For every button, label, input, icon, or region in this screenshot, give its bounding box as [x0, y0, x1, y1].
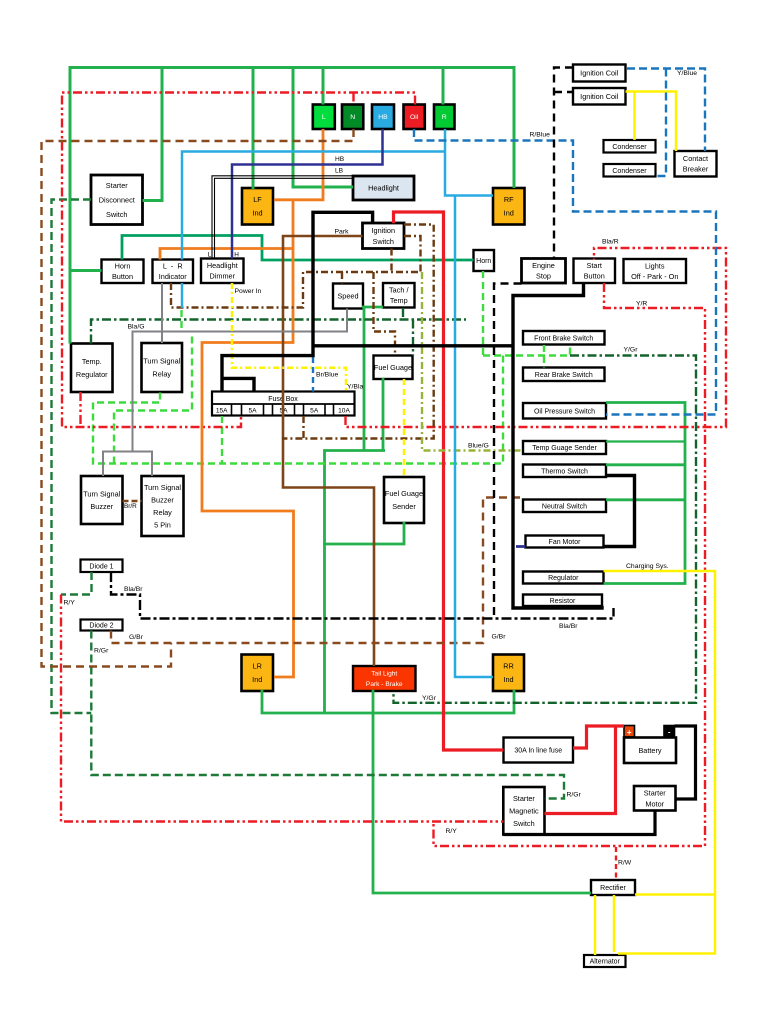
- starter magnetic switch: [503, 787, 544, 835]
- temp guage sender: [523, 441, 606, 454]
- svg-text:Relay: Relay: [152, 370, 171, 379]
- svg-text:Lights: Lights: [645, 261, 665, 270]
- svg-text:Sender: Sender: [392, 502, 416, 511]
- wire gray buzzer split: [103, 452, 152, 477]
- svg-text:Ind: Ind: [252, 675, 262, 684]
- wire red 30A fuse to battery plus: [573, 726, 624, 748]
- fuel guage: [374, 356, 413, 380]
- svg-text:Charging Sys.: Charging Sys.: [626, 563, 669, 570]
- svg-text:Breaker: Breaker: [683, 165, 709, 174]
- wire black bus to switch column: [313, 344, 513, 347]
- svg-text:Switch: Switch: [106, 210, 128, 219]
- svg-text:Diode 2: Diode 2: [89, 623, 113, 630]
- svg-text:Park - Brake: Park - Brake: [366, 681, 403, 688]
- svg-text:Neutral Switch: Neutral Switch: [542, 503, 587, 510]
- wire green drop to R indicator box: [442, 68, 445, 105]
- engine stop switch: [522, 259, 566, 284]
- svg-text:HB: HB: [335, 156, 345, 163]
- wire red dash-dot top rail and left fuse run: [62, 93, 415, 428]
- svg-text:Starter: Starter: [513, 794, 535, 803]
- svg-text:Oil: Oil: [410, 114, 419, 121]
- turn signal buzzer: [81, 476, 123, 524]
- svg-text:10A: 10A: [338, 408, 350, 415]
- wire brown dash-dot ignition wire B: [404, 236, 421, 272]
- svg-text:Fan Motor: Fan Motor: [549, 539, 582, 546]
- fuel guage sender: [384, 477, 424, 523]
- svg-text:Starter: Starter: [106, 181, 128, 190]
- svg-text:Y/R: Y/R: [636, 301, 647, 308]
- svg-text:Headlight: Headlight: [368, 184, 399, 193]
- svg-text:Ind: Ind: [503, 675, 513, 684]
- wire dark-green dash-dot Fuel Guage stub: [412, 320, 414, 356]
- wire navy LB rail: [232, 129, 383, 259]
- wire black dashed coil feed: [554, 68, 573, 259]
- wire brown dash-dot ignition wire A: [282, 225, 434, 439]
- svg-text:R/Gr: R/Gr: [94, 648, 109, 655]
- svg-text:LB: LB: [335, 168, 344, 175]
- svg-text:Battery: Battery: [638, 746, 661, 755]
- wire red dash-dot Temp Regulator stub: [79, 392, 81, 427]
- wire black dashed Engine Stop run: [494, 284, 522, 619]
- temp regulator: [71, 344, 113, 393]
- svg-text:Power In: Power In: [235, 288, 262, 295]
- svg-text:Y/Gr: Y/Gr: [624, 347, 639, 354]
- indicator lamp L: [313, 105, 335, 130]
- wire green Fuel Guage Sender branch: [323, 522, 404, 544]
- headlight: [353, 176, 414, 200]
- svg-text:Br/Blue: Br/Blue: [316, 372, 339, 379]
- svg-text:Stop: Stop: [536, 272, 551, 281]
- wire gray from L-R Indicator to Turn Signal Relay: [161, 283, 163, 343]
- svg-text:Button: Button: [584, 272, 605, 281]
- svg-text:Headlight: Headlight: [207, 261, 238, 270]
- svg-text:5A: 5A: [248, 408, 257, 415]
- svg-text:Temp Guage Sender: Temp Guage Sender: [532, 445, 597, 452]
- wire green switch bus right side: [604, 403, 686, 584]
- wire yellow dash-dot Power In: [232, 283, 346, 392]
- svg-text:Bla/G: Bla/G: [128, 324, 145, 331]
- svg-text:R/Gr: R/Gr: [567, 792, 582, 799]
- ignition coil 2: [573, 88, 626, 105]
- front brake switch: [523, 331, 605, 345]
- LR Ind lamp: [242, 655, 274, 692]
- wire red main feed from Ignition Switch: [394, 212, 504, 750]
- svg-text:Alternator: Alternator: [590, 959, 621, 966]
- svg-text:Bla/R: Bla/R: [602, 239, 619, 246]
- RF Ind lamp: [493, 188, 525, 225]
- wire light-green dashed bus run: [93, 356, 503, 464]
- svg-text:Ignition Coil: Ignition Coil: [580, 92, 619, 101]
- svg-text:Fuel Guage: Fuel Guage: [374, 363, 412, 372]
- thermo switch: [523, 465, 606, 478]
- wire black Thermo to Fan Motor bus: [604, 476, 635, 547]
- wire yellow condenser stub: [633, 92, 636, 141]
- svg-text:R/Y: R/Y: [64, 600, 76, 607]
- alternator: [584, 955, 626, 967]
- svg-text:Blue/G: Blue/G: [468, 443, 489, 450]
- wire gray header from Speed: [133, 309, 348, 452]
- wire green drop to LF Ind: [252, 68, 255, 190]
- wire blue dashed Y/Blue: [627, 69, 705, 152]
- diode 2: [81, 620, 123, 631]
- start button: [574, 259, 616, 284]
- wire light-green dashed second riser: [114, 332, 192, 464]
- svg-text:Rear Brake Switch: Rear Brake Switch: [535, 372, 593, 379]
- RR Ind lamp: [493, 655, 524, 692]
- wire brown dash-dot accessory header: [171, 272, 421, 308]
- svg-text:Buzzer: Buzzer: [90, 502, 113, 511]
- wire thin black headlight L wire inner: [215, 178, 354, 258]
- wire dark-green dashed R/Gr run: [91, 631, 564, 799]
- wire light-green dashed brake header: [483, 344, 570, 356]
- svg-text:R: R: [442, 114, 447, 121]
- svg-text:RR: RR: [503, 662, 514, 671]
- svg-text:Magnetic: Magnetic: [509, 806, 539, 815]
- svg-text:Button: Button: [112, 272, 133, 281]
- starter disconnect switch: [91, 175, 143, 225]
- svg-text:Bla/Br: Bla/Br: [124, 586, 143, 593]
- wire black battery minus to starter motor: [675, 726, 696, 799]
- svg-text:Turn Signal: Turn Signal: [83, 489, 120, 498]
- svg-text:Switch: Switch: [513, 819, 535, 828]
- indicator lamp N: [342, 105, 363, 130]
- rectifier: [591, 880, 635, 895]
- wire navy Fan Motor stub: [516, 545, 526, 548]
- svg-text:Buzzer: Buzzer: [151, 495, 174, 504]
- wire green from Fuel Guage bottom: [382, 378, 385, 451]
- wire blue dashed Br/Blue fuse stub: [312, 357, 314, 392]
- battery minus terminal: [664, 726, 675, 738]
- wire brown dashed G/Br run: [111, 498, 523, 644]
- wire green drop to Starter Disconnect Switch: [143, 68, 163, 201]
- wire green Neutral Switch link: [606, 498, 685, 501]
- svg-text:LF: LF: [253, 195, 262, 204]
- indicator lamp HB: [372, 105, 394, 130]
- svg-text:L - R: L - R: [163, 262, 183, 271]
- battery plus terminal: [624, 726, 635, 738]
- regulator: [523, 572, 604, 584]
- diode 1: [81, 560, 123, 573]
- svg-text:30A In line fuse: 30A In line fuse: [514, 748, 562, 755]
- svg-text:Switch: Switch: [373, 237, 395, 246]
- wire light-green dashed Horn drop: [482, 271, 484, 356]
- wire dark-green dash-dot Tach stub: [402, 308, 404, 320]
- svg-text:Contact: Contact: [683, 154, 708, 163]
- svg-text:Diode 1: Diode 1: [89, 563, 113, 570]
- svg-text:Turn Signal: Turn Signal: [144, 483, 181, 492]
- svg-text:Fuel Guage: Fuel Guage: [385, 489, 423, 498]
- contact breaker: [675, 151, 717, 177]
- wire yellow rectifier to alternator left: [594, 895, 597, 955]
- svg-text:Relay: Relay: [153, 508, 172, 517]
- wire red dash-dot Y/R run: [434, 283, 706, 846]
- ignition switch: [363, 223, 405, 249]
- svg-text:HB: HB: [378, 114, 388, 121]
- rear brake switch: [523, 368, 605, 382]
- svg-text:Regulator: Regulator: [76, 370, 108, 379]
- 30A in line fuse: [504, 738, 574, 763]
- svg-text:Br/R: Br/R: [124, 503, 137, 510]
- svg-text:R/W: R/W: [618, 860, 632, 867]
- svg-text:Oil Pressure Switch: Oil Pressure Switch: [534, 408, 595, 415]
- svg-text:Engine: Engine: [532, 261, 555, 270]
- condenser 2: [604, 164, 656, 177]
- wire dark-green dash-dot Y/Gr run: [394, 356, 697, 703]
- wire yellow charging system run: [604, 571, 716, 954]
- svg-text:L: L: [208, 252, 212, 259]
- svg-text:5 Pin: 5 Pin: [154, 520, 171, 529]
- wire orange from L box to LF Ind: [274, 129, 323, 200]
- speed gauge: [333, 284, 363, 309]
- wire black ignition switch to fuse box: [222, 212, 373, 391]
- svg-text:Indicator: Indicator: [159, 272, 188, 281]
- horn button: [102, 260, 144, 284]
- svg-text:Off - Park - On: Off - Park - On: [631, 272, 678, 281]
- wire olive dash-dot Blue/G: [422, 272, 523, 451]
- svg-text:Y/Gr: Y/Gr: [422, 695, 437, 702]
- wire black fuse feeder branch: [223, 378, 254, 391]
- wire yellow dashed fuel gauge signal: [403, 379, 406, 477]
- wire cyan HB rail to L-R Indicator: [182, 152, 445, 260]
- svg-text:Speed: Speed: [337, 292, 358, 301]
- svg-text:Tail Light: Tail Light: [371, 671, 397, 678]
- wire green drop to Headlight: [293, 68, 353, 188]
- wire cyan from R box to RF Ind: [445, 129, 493, 196]
- svg-text:Horn: Horn: [115, 262, 131, 271]
- wire brown dash-dot ignition bottom stub: [390, 249, 392, 273]
- svg-text:Turn Signal: Turn Signal: [143, 357, 180, 366]
- wire red dash-dot R/Y run: [61, 595, 503, 822]
- turn signal relay: [142, 343, 183, 392]
- svg-text:-: -: [668, 728, 671, 737]
- wire light-green dashed indicator stub: [180, 310, 182, 332]
- svg-text:Motor: Motor: [645, 799, 664, 808]
- wire dark-green dashed Diode 1 out: [61, 572, 92, 595]
- svg-text:Y/Bla: Y/Bla: [347, 384, 363, 391]
- wire yellow ignition coil to breaker: [626, 92, 677, 152]
- wire cyan indicator bottom stub: [181, 283, 184, 308]
- svg-text:Condenser: Condenser: [612, 144, 647, 151]
- wire black dashed coil 2 stub: [554, 91, 573, 93]
- wire dark-green dashed Starter Disconnect run: [52, 200, 92, 714]
- wire black dash-dot Bla/Br run: [111, 572, 614, 619]
- wire green Thermo Switch link: [606, 463, 685, 466]
- svg-text:Starter: Starter: [644, 788, 666, 797]
- svg-text:+: +: [627, 728, 632, 737]
- wire yellow rectifier right link: [635, 893, 715, 896]
- wire green vertical from Tach link: [363, 306, 366, 451]
- indicator lamp Oil: [404, 105, 425, 130]
- wire red dashed R/W to Rectifier: [615, 847, 617, 880]
- wire green Tach-Speed link: [362, 306, 383, 309]
- svg-text:Horn: Horn: [476, 258, 491, 265]
- svg-text:Park: Park: [335, 229, 350, 236]
- wire cyan long vertical to RR Ind: [455, 196, 493, 678]
- wire green tail light vertical to rectifier: [373, 690, 591, 893]
- L-R indicator: [153, 260, 194, 284]
- svg-text:R/Y: R/Y: [446, 828, 458, 835]
- svg-text:Front Brake Switch: Front Brake Switch: [534, 335, 593, 342]
- neutral switch: [523, 500, 606, 513]
- svg-text:Ignition Coil: Ignition Coil: [580, 69, 619, 78]
- svg-text:Dimmer: Dimmer: [209, 272, 235, 281]
- wire light-green dashed front-rear brake stub: [543, 345, 545, 368]
- svg-text:G/Br: G/Br: [129, 634, 144, 641]
- wire orange main run: [202, 200, 294, 677]
- svg-text:Disconnect: Disconnect: [99, 195, 135, 204]
- wire green lamp ground bus: [262, 690, 514, 713]
- wire black starter magnetic switch bottom: [503, 811, 655, 835]
- wire red battery to Starter Magnetic Switch: [545, 726, 616, 814]
- svg-text:Tach /: Tach /: [389, 286, 409, 295]
- starter motor: [634, 786, 676, 811]
- svg-text:Resistor: Resistor: [550, 598, 576, 605]
- lights switch: [624, 259, 687, 283]
- battery: [624, 738, 676, 764]
- fan motor: [526, 536, 604, 548]
- svg-text:Thermo Switch: Thermo Switch: [541, 468, 588, 475]
- svg-text:Regulator: Regulator: [548, 575, 579, 582]
- wire green main harness: [70, 68, 514, 344]
- svg-text:Y/Blue: Y/Blue: [677, 70, 697, 77]
- svg-text:Start: Start: [587, 261, 602, 270]
- wire brown dashed N-box long loop: [42, 129, 354, 667]
- wire brown dash-dot Speed stub: [341, 272, 343, 284]
- condenser 1: [604, 140, 656, 153]
- indicator lamp R: [434, 105, 455, 130]
- fuse box assembly: [212, 392, 355, 416]
- wire brown dash-dot 5A fuse stub: [302, 416, 304, 439]
- wire blue dashed R/Blue: [414, 129, 716, 415]
- wire black switch bus from Start Button: [513, 283, 602, 608]
- svg-text:Ind: Ind: [504, 209, 514, 218]
- resistor: [523, 595, 602, 607]
- wire yellow rectifier to alternator right: [613, 895, 616, 952]
- svg-text:RF: RF: [504, 195, 514, 204]
- wire thin black headlight L wire outer: [212, 176, 353, 259]
- wire horn green from Horn Button to Horn: [122, 236, 474, 261]
- svg-text:15A: 15A: [216, 408, 228, 415]
- oil pressure switch: [523, 403, 606, 419]
- svg-text:H: H: [234, 252, 239, 259]
- svg-text:Ind: Ind: [252, 209, 262, 218]
- wire brown Park feed: [283, 236, 374, 666]
- wire green Temp Guage Sender link: [606, 440, 685, 442]
- svg-text:LR: LR: [253, 662, 262, 671]
- wire green branch to Horn Button: [70, 269, 102, 272]
- wire dark-green dash-dot Bla/G run: [91, 320, 466, 344]
- svg-text:Rectifier: Rectifier: [600, 885, 626, 892]
- wire light-green dashed 15A fuse stub: [221, 416, 223, 464]
- wire orange to L-R Indicator: [160, 249, 293, 260]
- svg-text:Condenser: Condenser: [612, 168, 647, 175]
- horn: [474, 250, 495, 271]
- wire red dash-dot 10A fuse run: [346, 248, 727, 427]
- svg-text:N: N: [350, 114, 355, 121]
- wire blue dashed Y/Blue condenser branch: [656, 69, 667, 177]
- turn signal buzzer relay 5 pin: [142, 476, 184, 536]
- svg-text:Ignition: Ignition: [371, 226, 395, 235]
- LF Ind lamp: [242, 188, 273, 225]
- wire red dash-dot N box stub: [352, 93, 354, 105]
- ignition coil 1: [573, 65, 626, 82]
- wire brown dash-dot Fuel Guage feed: [374, 272, 396, 356]
- svg-text:Bla/Br: Bla/Br: [559, 623, 578, 630]
- svg-text:R/Blue: R/Blue: [530, 132, 551, 139]
- headlight dimmer: [201, 259, 244, 284]
- wire brown Br/R link: [123, 500, 142, 502]
- svg-text:Temp.: Temp.: [82, 357, 102, 366]
- svg-text:Temp: Temp: [390, 296, 408, 305]
- wire green horizontal collector: [325, 451, 386, 714]
- svg-text:L: L: [322, 114, 326, 121]
- svg-text:G/Br: G/Br: [492, 634, 507, 641]
- svg-text:5A: 5A: [310, 408, 319, 415]
- wire green drop to L indicator box: [322, 68, 325, 105]
- tach temp gauge: [383, 283, 415, 308]
- tail light: [353, 666, 416, 691]
